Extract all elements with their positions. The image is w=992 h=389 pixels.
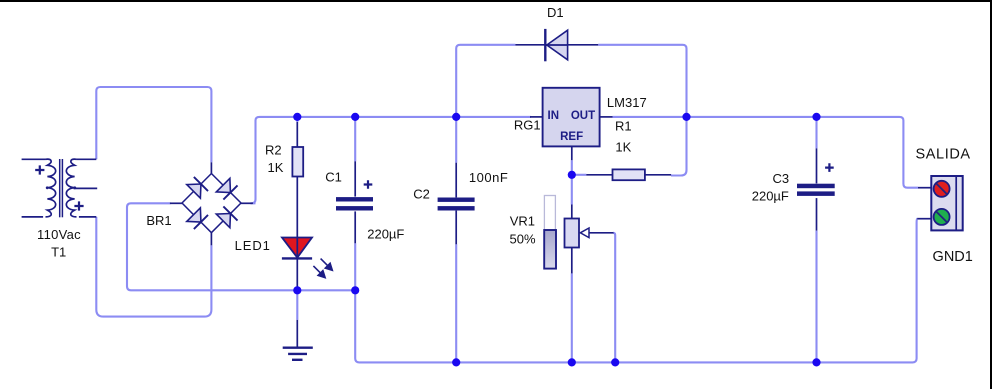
svg-text:220µF: 220µF xyxy=(752,189,789,204)
svg-text:LM317: LM317 xyxy=(607,95,647,110)
svg-text:220µF: 220µF xyxy=(367,226,404,241)
svg-text:LED1: LED1 xyxy=(235,238,271,253)
svg-text:R1: R1 xyxy=(615,119,632,134)
svg-text:BR1: BR1 xyxy=(146,213,171,228)
svg-text:110Vac: 110Vac xyxy=(37,227,81,242)
svg-text:D1: D1 xyxy=(547,5,564,20)
svg-text:VR1: VR1 xyxy=(510,214,535,229)
svg-text:R2: R2 xyxy=(265,142,282,157)
svg-text:IN: IN xyxy=(548,110,560,122)
svg-text:C1: C1 xyxy=(325,170,342,185)
svg-text:REF: REF xyxy=(560,131,583,143)
svg-text:100nF: 100nF xyxy=(469,170,508,185)
svg-text:50%: 50% xyxy=(509,232,535,247)
svg-text:C3: C3 xyxy=(772,171,789,186)
svg-text:C2: C2 xyxy=(413,187,430,202)
svg-text:1K: 1K xyxy=(615,139,631,154)
svg-text:RG1: RG1 xyxy=(514,118,541,133)
svg-text:GND1: GND1 xyxy=(933,249,973,265)
svg-text:1K: 1K xyxy=(268,160,284,175)
svg-text:OUT: OUT xyxy=(571,110,595,122)
svg-text:SALIDA: SALIDA xyxy=(916,147,971,163)
svg-text:T1: T1 xyxy=(51,245,66,260)
